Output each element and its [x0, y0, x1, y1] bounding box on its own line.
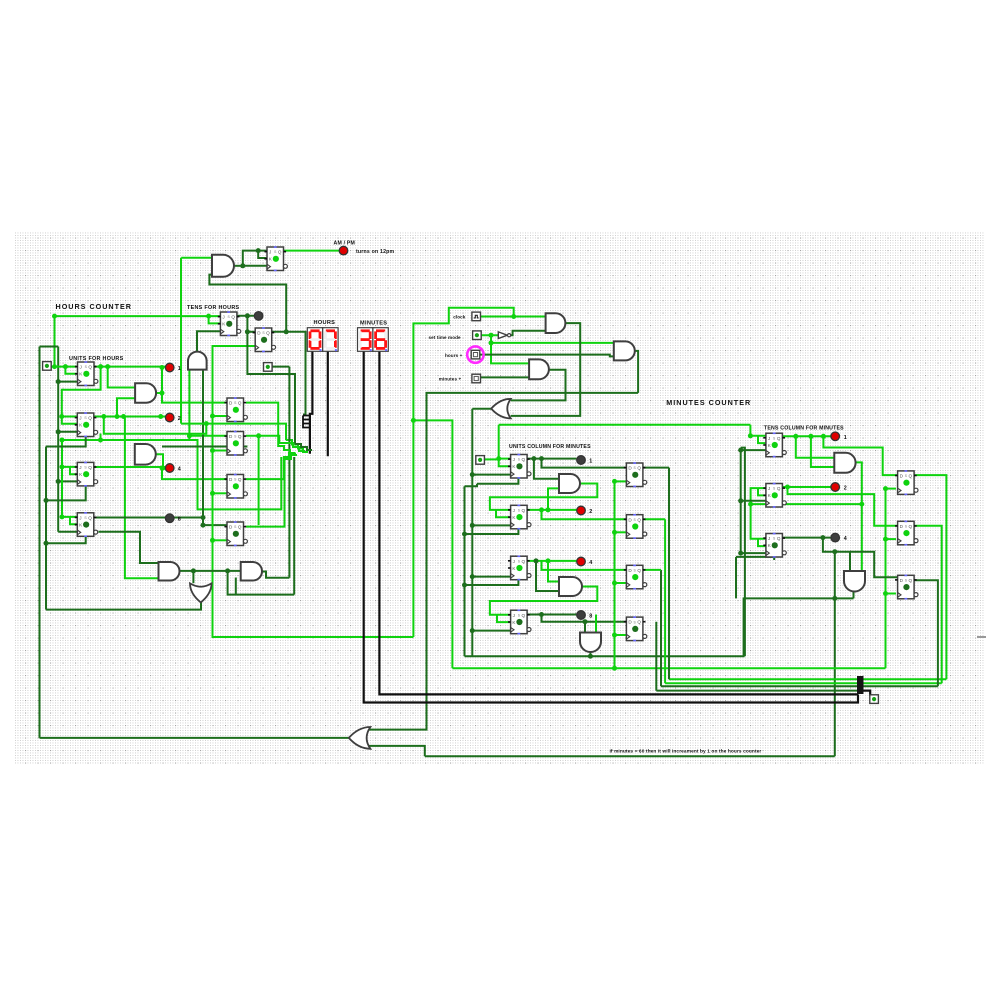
wire set-time to AND3 — [491, 342, 614, 344]
wire t clk trunk — [740, 448, 742, 553]
svg-text:4: 4 — [589, 560, 592, 566]
wire Q1 to AND1h — [108, 367, 135, 388]
display minutes tens — [358, 328, 373, 352]
wire mQ1 LED — [527, 458, 576, 460]
canvas edge mark — [977, 636, 986, 638]
junction — [489, 340, 494, 345]
wire AND-B out — [156, 454, 163, 468]
AND gate MU2 — [559, 577, 582, 596]
wire mAND1 inA — [534, 459, 559, 479]
junction — [470, 523, 475, 528]
wire hours disp b1 — [327, 351, 329, 456]
junction — [201, 523, 206, 528]
wire — [54, 316, 56, 367]
svg-text:Q: Q — [637, 466, 641, 471]
wire OR-down out run — [46, 602, 201, 609]
wire tens K1 tie — [758, 436, 766, 443]
wire bit line — [62, 440, 281, 509]
svg-text:Q: Q — [88, 416, 92, 421]
wire tD clk s3 — [886, 593, 897, 595]
wire tQ2 to D2 — [788, 487, 898, 526]
wire m clock trunk — [471, 409, 473, 657]
junction — [531, 456, 536, 461]
svg-text:Q: Q — [266, 331, 270, 336]
wire ampm clk — [243, 265, 267, 267]
wire mQ4 to D4 — [542, 615, 627, 622]
wire tAND1 inB — [811, 436, 834, 467]
junction — [187, 433, 192, 438]
junction — [470, 574, 475, 579]
AND gate BR — [241, 562, 262, 581]
wire bit m4 v — [655, 622, 657, 691]
svg-text:Q: Q — [88, 465, 92, 470]
flip-flop MD3 — [624, 565, 647, 590]
wire clk stub HD3 — [213, 492, 228, 494]
wire tens Q line — [236, 315, 254, 317]
wire Q3 to HD3 — [162, 468, 227, 479]
wire NOT out — [511, 331, 546, 335]
LED h8 — [165, 514, 174, 523]
wire mANDd inB — [595, 615, 597, 633]
pin hours+ — [471, 350, 480, 359]
svg-text:Q: Q — [637, 517, 641, 522]
wire tQ3 to D3 — [823, 538, 898, 578]
junction — [738, 498, 743, 503]
wire m clk stub2 — [472, 524, 510, 526]
wire hours top rail — [55, 315, 221, 317]
display minutes units — [373, 328, 388, 352]
wire ampm AND top in — [181, 257, 212, 259]
wire bus m1 — [669, 678, 946, 680]
wire mJ1 — [499, 458, 511, 460]
junction — [748, 502, 753, 507]
wire tQ2 LED — [782, 486, 831, 488]
wire mQ2 LED — [527, 509, 576, 511]
svg-text:Q: Q — [238, 434, 242, 439]
wire bit m3 v — [660, 570, 662, 686]
flip-flop tens-hours D — [253, 327, 276, 352]
wire minutes clk rail — [452, 667, 885, 669]
flip-flop MD2 — [624, 514, 647, 539]
flip-flop MU1 JK — [508, 454, 531, 479]
wire left trunk — [39, 347, 41, 738]
svg-text:8: 8 — [178, 517, 181, 523]
svg-text:2: 2 — [589, 509, 592, 515]
wire U4 Qbar to AND-BL — [99, 532, 159, 563]
AND gate up tens — [188, 352, 207, 370]
LED m1 — [577, 456, 586, 465]
svg-text:Q: Q — [777, 536, 781, 541]
wire bit m2 v — [664, 519, 666, 683]
junction — [883, 537, 888, 542]
junction — [462, 532, 467, 537]
wire mQ3 to D3 — [542, 561, 627, 570]
junction — [204, 421, 209, 426]
AND gate MT down — [844, 571, 865, 592]
AND gate BL — [159, 562, 180, 581]
junction — [883, 486, 888, 491]
svg-text:Q: Q — [238, 401, 242, 406]
wire carry drop — [834, 552, 836, 757]
junction — [245, 313, 250, 318]
wire m reset2 — [465, 529, 519, 534]
wire t clk top — [741, 448, 745, 657]
wire mK2 tie — [496, 510, 511, 517]
junction — [210, 414, 215, 419]
junction — [612, 666, 617, 671]
wire tK3 tie — [758, 539, 766, 546]
black step1 — [303, 415, 311, 417]
wire set-time down — [491, 335, 529, 363]
svg-text:hours +: hours + — [445, 353, 463, 358]
svg-text:J: J — [222, 315, 224, 320]
AND gate B — [135, 444, 156, 465]
wire display riser B — [293, 457, 295, 595]
wire U2 Qbar drop — [100, 434, 102, 441]
wire mAND2 inB — [536, 561, 559, 591]
pin hours input — [43, 362, 52, 371]
OR gate down — [190, 583, 212, 602]
svg-text:1: 1 — [178, 366, 181, 372]
flip-flop HD2 — [224, 431, 247, 456]
wire tens D Q to display — [286, 332, 305, 415]
wire m clk stub3 — [472, 576, 510, 578]
wire hours increment feed — [40, 346, 59, 348]
wire mAND1 out loop — [490, 484, 597, 510]
junction — [160, 391, 165, 396]
junction — [883, 591, 888, 596]
wire mANDd out — [589, 652, 591, 656]
AND gate C1 — [546, 313, 566, 333]
junction — [60, 464, 65, 469]
wire t clk s2 — [741, 500, 766, 502]
junction — [539, 507, 544, 512]
junction — [52, 314, 57, 319]
junction — [210, 538, 215, 543]
wire Q1 to J2 — [62, 367, 101, 417]
wire mAND2 inA — [548, 561, 559, 582]
wire t feedback h — [736, 557, 774, 560]
wire mK4 tie — [497, 615, 511, 622]
wire bit m3 h — [643, 569, 661, 571]
wire clk stub U2 — [58, 431, 77, 433]
svg-text:AM / PM: AM / PM — [334, 240, 356, 246]
LED h2 — [165, 413, 174, 422]
flip-flop AM/PM JK — [264, 246, 287, 271]
wire ampm riser — [180, 258, 182, 424]
flip-flop HD4 — [224, 521, 247, 546]
wire bottom rail — [425, 755, 835, 757]
pin set-time — [473, 331, 482, 340]
wire input to J1 — [51, 366, 77, 368]
wire mAND2 out loop — [490, 587, 597, 615]
flip-flop MU2 JK — [508, 505, 531, 530]
junction — [98, 438, 103, 443]
wire Q4 to D4 — [203, 524, 227, 526]
wire display riser A — [288, 367, 290, 578]
wire tQ1 LED — [782, 435, 831, 437]
LED t1 — [831, 432, 840, 441]
wire AND-up in B — [202, 370, 204, 525]
wire K3 tie — [70, 467, 77, 474]
highlight ring — [467, 346, 483, 362]
junction — [191, 568, 196, 573]
svg-text:Q: Q — [777, 436, 781, 441]
wire clock pin — [481, 316, 546, 318]
flip-flop MU3 JK — [508, 556, 531, 581]
svg-text:Q: Q — [238, 477, 242, 482]
svg-text:2: 2 — [178, 416, 181, 422]
junction — [612, 479, 617, 484]
svg-text:J: J — [768, 536, 770, 541]
wire Q2 to AND1h — [117, 398, 135, 416]
wire AND-BR out — [262, 572, 289, 578]
junction — [256, 248, 261, 253]
junction — [60, 514, 65, 519]
wire Q1 to HD1 — [162, 368, 227, 403]
AND gate MU1 — [559, 474, 580, 493]
junction — [820, 535, 825, 540]
wire tD clk s2 — [886, 538, 897, 540]
junction — [206, 314, 211, 319]
wire hours+ to AND3 — [480, 355, 614, 357]
svg-text:J: J — [513, 457, 515, 462]
wire Q4 ext — [174, 517, 203, 519]
wire AND1 out — [511, 323, 581, 416]
svg-text:4: 4 — [178, 467, 181, 473]
OR gate C — [491, 399, 511, 419]
wire mQ2 to D2 — [542, 510, 627, 519]
wire bus m2 — [665, 682, 942, 684]
display hours units — [323, 328, 338, 352]
svg-text:MINUTES: MINUTES — [360, 320, 387, 326]
flip-flop HD1 — [224, 397, 247, 422]
flip-flop U2 JK — [75, 412, 98, 437]
wire HD3 Q to knot — [246, 453, 295, 479]
svg-text:J: J — [513, 508, 515, 513]
junction — [859, 502, 864, 507]
flip-flop TD3 — [895, 575, 918, 600]
junction — [56, 379, 61, 384]
AND gate MT1 — [834, 453, 855, 473]
svg-text:UNITS COLUMN FOR MINUTES: UNITS COLUMN FOR MINUTES — [509, 444, 591, 450]
junction — [98, 364, 103, 369]
wire hours D clock trunk — [213, 346, 414, 637]
junction — [44, 498, 49, 503]
LED t2 — [831, 483, 840, 492]
junction — [284, 329, 289, 334]
wire tQ3 LED — [782, 537, 831, 539]
junction — [539, 456, 544, 461]
svg-text:Q: Q — [637, 568, 641, 573]
svg-text:Q: Q — [637, 620, 641, 625]
wire ampm Q to LED — [282, 250, 339, 252]
junction — [160, 466, 165, 471]
wire riser to HD2 — [189, 435, 227, 437]
junction — [56, 479, 61, 484]
svg-text:Q: Q — [88, 515, 92, 520]
junction — [462, 583, 467, 588]
junction — [511, 314, 516, 319]
wire U3 reset — [46, 486, 86, 500]
wire OR in B — [366, 746, 424, 756]
wire reset trunk — [45, 447, 47, 610]
wire knot jog2 — [295, 444, 312, 450]
grid dots — [14, 232, 984, 764]
svg-text:UNITS FOR HOURS: UNITS FOR HOURS — [69, 356, 124, 362]
wire J3 feed — [62, 440, 77, 467]
flip-flop MT1 JK — [763, 433, 786, 458]
LED m2 — [577, 506, 586, 515]
junction — [808, 434, 813, 439]
svg-text:clock: clock — [453, 315, 466, 320]
wire tens J1 feed — [750, 425, 766, 436]
flip-flop HD3 — [224, 474, 247, 499]
wire tAND1 inA — [796, 436, 835, 457]
wire Q4 LED line — [94, 517, 165, 519]
wire hours inc rail — [366, 393, 638, 730]
junction — [210, 448, 215, 453]
wire mJ1 feed — [499, 425, 511, 466]
junction — [489, 333, 494, 338]
wire HD4 Q to knot — [246, 455, 297, 527]
wire tD clk s1 — [886, 488, 897, 490]
wire tJ3 feed — [751, 504, 766, 539]
black stepv — [303, 416, 311, 428]
junction — [256, 433, 261, 438]
wire to out pin — [864, 691, 871, 696]
LED h4 — [165, 464, 174, 473]
junction — [832, 596, 837, 601]
wire HD2 Q branch — [258, 436, 260, 525]
wire AND-up out to tens clk — [197, 331, 220, 351]
wire t clk s1 — [741, 449, 766, 451]
junction — [612, 530, 617, 535]
wire mD clk s3 — [615, 582, 627, 584]
svg-text:J: J — [768, 486, 770, 491]
wire clk stub HD4 — [213, 539, 228, 541]
wire ampm J — [243, 251, 267, 266]
wire m reset1b — [465, 484, 478, 487]
junction — [411, 418, 416, 423]
junction — [240, 263, 245, 268]
wire minutes+ to AND2 — [480, 376, 529, 378]
wire m clk stub1 — [472, 474, 510, 476]
svg-text:1: 1 — [589, 459, 592, 465]
wire t clk s3 — [741, 552, 766, 554]
wire AND-up in A riser — [188, 370, 190, 440]
junction — [115, 414, 120, 419]
wire AND-A out — [156, 392, 162, 394]
svg-text:Q: Q — [909, 474, 913, 479]
svg-text:J: J — [513, 613, 515, 618]
wire knot jog — [286, 440, 308, 452]
display hours tens — [307, 328, 322, 352]
svg-text:4: 4 — [844, 536, 847, 542]
wire clk stub U3 — [58, 480, 77, 482]
LED m8 — [577, 611, 586, 620]
junction — [738, 448, 743, 453]
svg-text:J: J — [513, 559, 515, 564]
wire tens D Q to ampm — [209, 275, 286, 332]
wire clk stub HD1 — [213, 415, 228, 417]
wire ampm K tie — [258, 251, 267, 258]
wire J4 feed — [62, 440, 77, 517]
junction — [546, 558, 551, 563]
wire mQ4 LED — [527, 614, 576, 616]
wire clock up — [413, 308, 513, 421]
svg-text:J: J — [768, 436, 770, 441]
wire set-time to NOT — [480, 334, 498, 336]
wire Q3 LED line — [94, 466, 165, 468]
wire AND3 out — [635, 351, 638, 393]
junction — [470, 472, 475, 477]
wire mD clk trunk — [614, 481, 616, 668]
wire HD1 Q to knot — [246, 403, 296, 454]
svg-text:Q: Q — [522, 613, 526, 618]
wire m reset trunk — [464, 486, 466, 656]
wire tK2 tie — [758, 488, 766, 495]
wire Q2 jog — [104, 417, 207, 434]
flip-flop MT2 JK — [763, 483, 786, 508]
junction — [496, 456, 501, 461]
wire K2 tie — [62, 417, 78, 424]
pin minutes input — [476, 456, 485, 465]
wire hours disp b0 — [310, 351, 313, 454]
wire Q2 riser to AND-BL — [125, 417, 158, 579]
wire mD clk s1 — [615, 480, 627, 482]
wire tens Q to D — [247, 331, 255, 333]
flip-flop MD4 — [624, 616, 647, 641]
wire minutes disp b0 — [364, 351, 858, 702]
wire m reset3 — [465, 580, 519, 585]
junction — [546, 507, 551, 512]
junction — [738, 551, 743, 556]
wire U1 reset — [46, 437, 86, 447]
svg-text:1: 1 — [844, 435, 847, 441]
junction — [245, 329, 250, 334]
svg-text:Q: Q — [278, 250, 282, 255]
flip-flop MD1 — [624, 462, 647, 487]
wire bus m4 — [656, 690, 857, 692]
wire to disp riser B — [228, 571, 295, 595]
svg-text:Q: Q — [88, 365, 92, 370]
wire Q1 LED line — [94, 366, 165, 368]
wire bit m1 — [643, 467, 669, 469]
wire bit t1 — [913, 475, 946, 679]
wire mAND1 inB — [548, 488, 559, 510]
wire OR out to hours — [40, 737, 349, 739]
wire hours input sq — [271, 366, 289, 368]
junction — [210, 491, 215, 496]
junction — [534, 558, 539, 563]
junction — [612, 633, 617, 638]
junction — [59, 414, 64, 419]
wire clock to minutes — [413, 420, 452, 668]
junction — [748, 433, 753, 438]
wire OR out — [472, 408, 491, 410]
black step3 — [303, 423, 311, 425]
svg-text:Q: Q — [238, 525, 242, 530]
junction — [56, 429, 61, 434]
LED m4 — [577, 557, 586, 566]
wire bit m2 h — [643, 518, 665, 520]
svg-text:J: J — [269, 250, 271, 255]
wire bit t3 — [913, 580, 938, 686]
junction — [201, 515, 206, 520]
junction — [44, 541, 49, 546]
junction — [161, 466, 166, 471]
